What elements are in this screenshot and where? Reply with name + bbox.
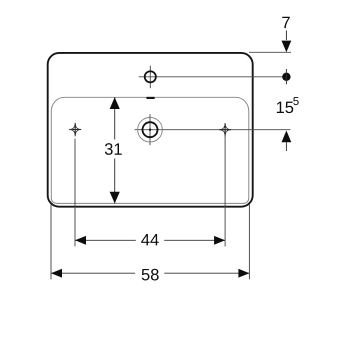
faucet hole circle [145, 71, 156, 82]
dim 31 arrow down [110, 192, 120, 204]
drain hole outer circle [138, 117, 163, 142]
dim 15.5 arrow up [282, 131, 292, 143]
dim 58 line right [164, 272, 249, 274]
drain hole centerline horizontal [135, 129, 291, 131]
right fixing point marker [219, 123, 231, 136]
dim 58 line left [51, 272, 135, 274]
dim 58 extension line left [50, 205, 52, 280]
dim 58 arrow left [51, 269, 62, 278]
dim 15.5 line through dot [285, 69, 287, 84]
dim 58 extension line right [248, 205, 250, 280]
dim 31 line upper [114, 97, 116, 139]
dim 44 line left [75, 239, 136, 241]
washbasin outer outline (top view) [48, 53, 253, 207]
dim 44 extension line right [224, 136, 226, 247]
dim 7 label [282, 17, 290, 28]
dim 44 line right [164, 239, 225, 241]
dim 44 label [141, 234, 158, 245]
dim 7 arrow down [282, 41, 292, 53]
dim 15.5 start dot [282, 73, 290, 81]
overflow slot [146, 97, 155, 99]
dim 44 arrow right [214, 236, 225, 245]
drain hole inner circle [143, 122, 158, 137]
dim 31 label [105, 143, 122, 155]
dim 58 arrow right [238, 269, 249, 278]
left fixing point marker [69, 123, 81, 136]
dim 31 line lower [114, 159, 116, 204]
dim 44 arrow left [75, 236, 86, 245]
washbasin inner rim [51, 97, 249, 203]
dim 44 extension line left [74, 139, 76, 247]
dim 7 extension line (top edge) [249, 51, 291, 53]
drain hole center dot [149, 129, 151, 131]
faucet hole centerline vertical [149, 66, 151, 89]
drain hole centerline vertical [149, 114, 151, 145]
dim 31 arrow up [110, 97, 120, 109]
dim 7 leader line [285, 31, 287, 41]
dim 15.5 tail line [285, 142, 287, 151]
dim 15.5 label [277, 102, 293, 114]
faucet hole centerline horizontal [139, 76, 287, 78]
dim 15.5 superscript [293, 97, 298, 105]
dim 58 label [142, 269, 159, 281]
